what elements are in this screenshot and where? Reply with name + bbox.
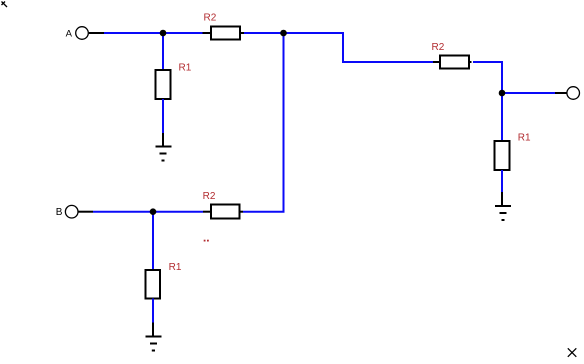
wire R2 bottom to node2 — [243, 33, 284, 212]
cursor mark bottom-right — [568, 348, 577, 357]
resistor R1 right — [495, 141, 510, 170]
wire A to node1 — [104, 32, 163, 34]
wire node4 to R2 bottom — [153, 211, 203, 213]
wire R1 right to ground — [501, 170, 503, 192]
svg-text:R2: R2 — [204, 12, 217, 23]
wire R2 to node2 — [244, 32, 284, 34]
ground left — [156, 133, 172, 161]
resistor R2 bottom — [211, 205, 240, 219]
wire R1 bottom to ground — [152, 299, 154, 323]
wire R2 bottom right pin stub — [240, 211, 244, 213]
svg-text:R1: R1 — [169, 262, 182, 273]
wire node1 to R2 — [163, 32, 203, 34]
svg-text:A: A — [66, 28, 73, 39]
svg-text:B: B — [56, 207, 63, 218]
wire R2 to node3 — [473, 62, 502, 93]
wire R2 right pin stub — [240, 32, 244, 34]
resistor R2 top — [211, 27, 240, 40]
wire node1 to R1 left — [162, 33, 164, 70]
wire R2 left pin stub — [203, 32, 212, 34]
wire B to node4 — [93, 211, 153, 213]
terminal B — [65, 205, 78, 218]
wire R1 left to ground — [162, 99, 164, 133]
resistor R2 right — [440, 56, 469, 69]
wire node3 to R1 right — [501, 93, 503, 141]
svg-text:R2: R2 — [203, 191, 216, 202]
svg-text:R1: R1 — [179, 62, 192, 73]
hidden label dots — [204, 240, 209, 242]
wire right R2 left pin stub — [433, 61, 440, 63]
node junction 1 — [160, 30, 167, 37]
node junction 2 — [280, 30, 287, 37]
svg-text:R2: R2 — [432, 42, 445, 53]
node junction 4 — [150, 208, 157, 215]
cursor mark top-left — [2, 2, 8, 8]
wire B lead — [78, 211, 93, 213]
wire R2 bottom left pin stub — [203, 211, 211, 213]
terminal output — [567, 87, 580, 100]
wire node2 to right R2 — [284, 33, 434, 62]
wire node4 to R1 bottom — [152, 212, 154, 270]
wire output lead — [555, 92, 567, 94]
wire node3 to output — [502, 92, 555, 94]
terminal A — [76, 27, 89, 40]
ground bottom — [146, 323, 162, 351]
resistor R1 left — [156, 70, 171, 99]
ground right — [495, 192, 511, 220]
node junction 3 — [499, 90, 506, 97]
resistor R1 bottom — [146, 270, 161, 299]
svg-text:R1: R1 — [518, 132, 531, 143]
wire A lead — [89, 32, 104, 34]
wire right R2 right pin stub — [469, 61, 472, 63]
